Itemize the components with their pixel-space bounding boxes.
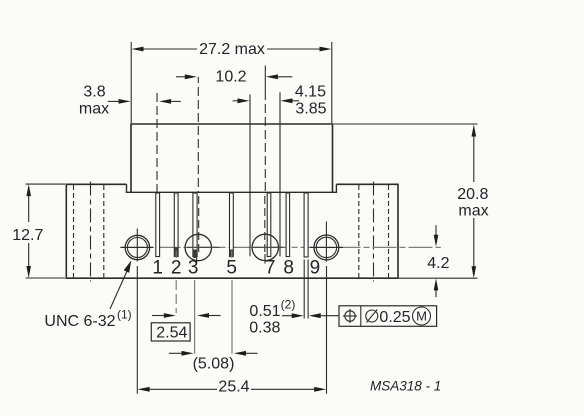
center line pin 7 (body, 10.2 ref): [264, 66, 267, 253]
svg-text:3.8: 3.8: [83, 83, 105, 100]
horizontal center line through holes: [121, 246, 441, 248]
svg-text:4.15: 4.15: [295, 84, 326, 101]
dimension 12.7: [12, 184, 65, 278]
hidden line left flange a: [73, 185, 75, 278]
svg-text:4.2: 4.2: [427, 255, 449, 272]
svg-text:max: max: [79, 101, 109, 118]
lead pin 5: [230, 193, 234, 257]
center tick pin 5: [231, 251, 233, 259]
right screw hole: [310, 222, 343, 262]
center line pin 3 (body, 10.2 ref): [197, 77, 199, 252]
lead pin 3: [193, 193, 197, 257]
dimension 10.2: [176, 69, 292, 86]
svg-text:27.2 max: 27.2 max: [199, 41, 265, 58]
svg-text:1: 1: [152, 257, 163, 278]
svg-text:25.4: 25.4: [218, 379, 249, 396]
svg-text:20.8: 20.8: [457, 186, 488, 203]
svg-text:3: 3: [188, 257, 199, 278]
dimension 4.2: [427, 225, 449, 297]
svg-text:UNC 6-32: UNC 6-32: [44, 313, 115, 330]
svg-text:5: 5: [226, 257, 237, 278]
svg-text:8: 8: [283, 257, 294, 278]
svg-text:2: 2: [171, 257, 182, 278]
hidden line left flange c: [103, 185, 105, 278]
svg-text:0.51: 0.51: [249, 303, 280, 320]
svg-text:0.25: 0.25: [379, 309, 410, 326]
hidden line left flange b (center line): [90, 182, 92, 282]
dimension 20.8 max: [334, 124, 489, 278]
svg-text:2.54: 2.54: [156, 324, 187, 341]
svg-text:0.38: 0.38: [249, 320, 280, 337]
left screw hole: [120, 229, 153, 262]
dimension 4.15/3.85: [233, 84, 327, 118]
lead pin 8: [286, 193, 290, 257]
svg-text:(2): (2): [281, 298, 296, 312]
hidden line right flange c: [388, 185, 390, 278]
svg-text:9: 9: [310, 257, 321, 278]
svg-text:M: M: [416, 309, 427, 324]
4.15/3.85 tab edge right: [279, 92, 281, 256]
hidden line right flange b (center line): [373, 182, 375, 282]
dimension 2.54: [151, 280, 232, 354]
center tick pin 2: [175, 251, 177, 259]
feature control frame: [339, 306, 437, 327]
lead pin 7: [267, 193, 271, 257]
svg-text:12.7: 12.7: [12, 227, 43, 244]
lead tip pin 3: [193, 250, 197, 259]
svg-text:7: 7: [265, 257, 276, 278]
lead tip pin 2: [175, 247, 178, 257]
lead pin 9: [304, 193, 308, 319]
4.15/3.85 tab edge left: [249, 94, 251, 256]
svg-text:(1): (1): [117, 308, 132, 322]
svg-text:(5.08): (5.08): [193, 356, 235, 373]
dimension 27.2 max: [131, 41, 332, 123]
dimension (5.08): [169, 351, 258, 373]
pin 7 hole: [252, 234, 284, 263]
svg-text:max: max: [458, 202, 488, 219]
dimension 3.8 max: [79, 83, 181, 117]
lead pin 1: [156, 193, 160, 257]
center line pin 1 (body): [156, 93, 158, 192]
package body (top section): [127, 124, 337, 192]
UNC 6-32 label and leader: [44, 261, 131, 331]
dimension 0.51/0.38: [249, 298, 339, 337]
dimension 25.4: [137, 266, 326, 396]
svg-text:MSA318 - 1: MSA318 - 1: [370, 379, 441, 394]
mounting flange: [66, 184, 398, 278]
pin 3 hole: [185, 234, 219, 263]
lead pin 2: [174, 193, 178, 257]
svg-text:10.2: 10.2: [215, 69, 246, 86]
hidden line right flange a: [358, 185, 360, 278]
svg-text:3.85: 3.85: [295, 101, 326, 118]
lead tip pin 5: [230, 250, 233, 258]
